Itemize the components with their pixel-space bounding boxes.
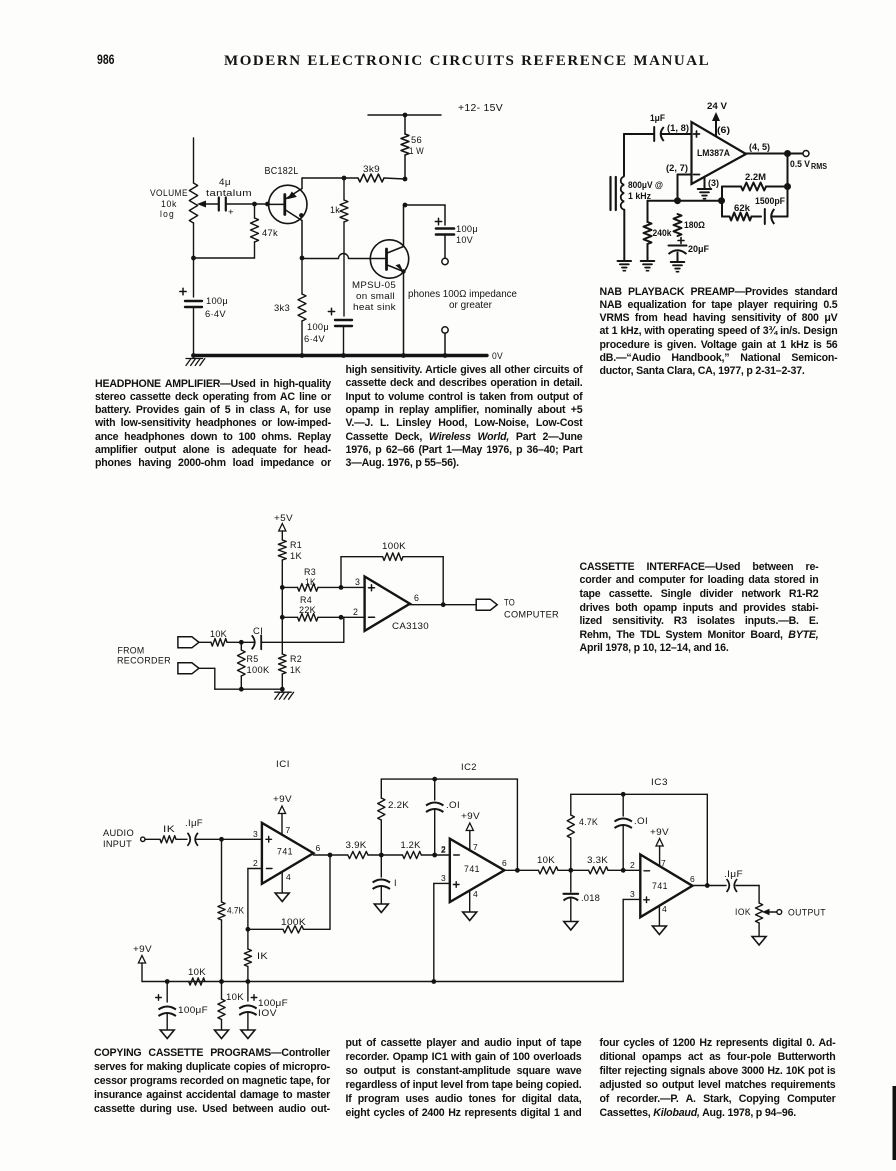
- svg-text:6: 6: [502, 858, 507, 868]
- svg-text:47k: 47k: [262, 228, 278, 239]
- resistor R2 1K: [279, 654, 287, 674]
- pin2 wire IC1: [248, 868, 262, 870]
- pin3 ground: [704, 177, 706, 189]
- scan artifact bar: [893, 1086, 896, 1160]
- wire to pin 3: [341, 586, 365, 588]
- svg-text:3: 3: [441, 873, 446, 883]
- svg-text:.018: .018: [581, 893, 600, 903]
- svg-text:4: 4: [286, 872, 291, 882]
- feedback 100K: [340, 557, 342, 588]
- svg-text:tantalum: tantalum: [206, 188, 252, 199]
- node feedback: [784, 183, 791, 190]
- output IC1 wire: [313, 854, 347, 856]
- svg-text:AUDIO: AUDIO: [103, 828, 134, 838]
- svg-text:IOK: IOK: [735, 907, 751, 917]
- svg-text:R3: R3: [304, 567, 316, 577]
- wire: [176, 838, 187, 840]
- node 4.7K top: [219, 837, 224, 842]
- capacitor .018: [570, 870, 572, 892]
- svg-text:100K: 100K: [281, 917, 307, 927]
- svg-text:3k9: 3k9: [363, 164, 380, 175]
- caption continuation column 2: [346, 1036, 582, 1120]
- svg-text:+9V: +9V: [461, 811, 481, 821]
- potentiometer VOLUME 10k log: [193, 138, 195, 183]
- svg-text:1 kHz: 1 kHz: [628, 191, 651, 201]
- IC2 output node: [504, 869, 538, 871]
- caption: cassette interface: [580, 561, 819, 656]
- svg-text:LM387A: LM387A: [697, 148, 730, 158]
- capacitor 100u 6.4V input: [180, 291, 186, 293]
- ground 20uF: [671, 261, 685, 263]
- wire: [404, 155, 406, 179]
- svg-text:7: 7: [473, 842, 478, 852]
- svg-text:(2, 7): (2, 7): [666, 163, 688, 173]
- wire to IC3 pin2: [608, 869, 640, 871]
- node line: [648, 200, 722, 202]
- capacitor .1uF output: [727, 879, 730, 892]
- wire arrow2 to ground line: [199, 667, 215, 669]
- wire cap to +input: [661, 133, 692, 135]
- wire: [145, 838, 160, 840]
- node pin2: [339, 615, 344, 620]
- capacitor 100uF rail: [166, 982, 168, 1003]
- caption continuation column: [346, 364, 583, 470]
- svg-text:IOV: IOV: [258, 1008, 277, 1018]
- node output to phones: [403, 203, 408, 208]
- tape head source 800uV: [609, 177, 611, 210]
- wire: [558, 869, 589, 871]
- svg-text:1 W: 1 W: [409, 146, 424, 157]
- svg-text:4.7K: 4.7K: [227, 906, 244, 916]
- pin4 ground IC1: [281, 872, 283, 893]
- pot to ground: [758, 923, 760, 937]
- input arrow 2: [178, 663, 199, 674]
- svg-text:R1: R1: [290, 540, 302, 550]
- node output: [441, 602, 446, 607]
- schematic: headphone amplifier: [150, 103, 518, 366]
- svg-text:+9V: +9V: [133, 944, 153, 954]
- svg-text:180Ω: 180Ω: [684, 220, 705, 230]
- wire head to ground: [623, 210, 625, 261]
- wire to pin 2: [341, 616, 365, 618]
- capacitor .01 second: [622, 794, 624, 816]
- resistor R1 1K: [278, 540, 286, 560]
- node divider: [280, 585, 285, 590]
- svg-text:1K: 1K: [305, 577, 317, 587]
- supply rail wire: [368, 114, 441, 116]
- svg-text:CA3130: CA3130: [392, 620, 429, 631]
- resistor 56 1W: [401, 134, 409, 155]
- capacitor 100u 6.4V bypass: [328, 311, 334, 313]
- capacitor 1: [380, 855, 382, 877]
- svg-text:4.7K: 4.7K: [579, 817, 598, 827]
- svg-text:ICI: ICI: [276, 759, 290, 769]
- svg-text:+9V: +9V: [650, 827, 670, 837]
- resistor 4.7K stage2: [570, 838, 572, 870]
- svg-text:10K: 10K: [210, 629, 228, 639]
- svg-text:100μ: 100μ: [456, 224, 478, 235]
- node base: [265, 202, 270, 207]
- svg-text:RECORDER: RECORDER: [117, 654, 171, 665]
- node 1k top: [342, 176, 347, 181]
- caption: NAB playback preamp: [600, 286, 838, 379]
- svg-text:1.2K: 1.2K: [401, 840, 421, 850]
- svg-text:1K: 1K: [290, 551, 303, 561]
- wire: [368, 854, 403, 856]
- output arrow TO COMPUTER: [476, 599, 497, 610]
- node at 56-ohm resistor top: [403, 113, 408, 118]
- resistor 10K stage2: [538, 867, 558, 874]
- svg-text:R2: R2: [290, 654, 302, 664]
- node 4.7K stage2: [568, 868, 573, 873]
- bias rail: [142, 981, 623, 983]
- svg-text:741: 741: [277, 847, 293, 857]
- -input wire: [678, 174, 692, 176]
- node collector-rail: [403, 177, 408, 182]
- svg-text:800μV @: 800μV @: [628, 180, 663, 190]
- output wire: [410, 604, 476, 606]
- svg-text:100K: 100K: [382, 540, 406, 551]
- svg-text:1μF: 1μF: [650, 113, 665, 123]
- rail junction dots: [300, 353, 305, 358]
- caption: copying cassette programs: [94, 1046, 330, 1116]
- svg-text:I: I: [394, 878, 397, 888]
- svg-text:2.2M: 2.2M: [745, 172, 766, 182]
- svg-text:log: log: [160, 209, 175, 220]
- wire cap to rail: [343, 327, 345, 356]
- capacitor 4u tantalum: [218, 198, 220, 211]
- node pot-foot: [191, 256, 196, 261]
- svg-text:0.5 V: 0.5 V: [790, 159, 811, 170]
- svg-text:BC182L: BC182L: [265, 166, 299, 177]
- svg-text:7: 7: [661, 858, 666, 868]
- output wire: [746, 153, 803, 155]
- svg-text:4: 4: [473, 889, 478, 899]
- wire to pot: [736, 885, 759, 887]
- resistor 10K rail: [189, 978, 205, 985]
- resistor R5 100K: [238, 650, 246, 676]
- capacitor 20uF: [678, 240, 684, 242]
- svg-text:100K: 100K: [247, 665, 271, 675]
- svg-text:100μF: 100μF: [178, 1005, 208, 1015]
- svg-text:6: 6: [316, 843, 321, 853]
- svg-text:2: 2: [630, 860, 635, 870]
- capacitor 100u 10V: [435, 221, 441, 223]
- resistor 3k9: [302, 177, 358, 179]
- resistor 1K bias: [247, 929, 249, 949]
- svg-text:3: 3: [355, 577, 360, 587]
- resistor R3 1K: [282, 586, 297, 588]
- svg-text:heat sink: heat sink: [353, 302, 396, 313]
- resistor 47k: [254, 204, 256, 218]
- svg-text:INPUT: INPUT: [103, 839, 132, 849]
- svg-text:R4: R4: [300, 595, 312, 605]
- svg-text:.OI: .OI: [446, 800, 460, 810]
- svg-text:IC3: IC3: [651, 777, 668, 787]
- svg-text:COMPUTER: COMPUTER: [504, 608, 559, 619]
- pin3 wire IC3 long feedback: [623, 898, 640, 900]
- resistor 10K input: [199, 641, 211, 643]
- op-amp LM387A: [692, 122, 747, 184]
- bottom wire: [215, 688, 282, 690]
- svg-text:(3): (3): [708, 178, 719, 188]
- resistor 4.7K input divider: [221, 839, 223, 902]
- wire to phones cap: [405, 204, 445, 206]
- svg-text:6: 6: [690, 874, 695, 884]
- header page number: [97, 51, 115, 67]
- svg-text:2.2K: 2.2K: [388, 800, 409, 810]
- svg-text:+9V: +9V: [273, 794, 293, 804]
- svg-text:.OI: .OI: [634, 816, 648, 826]
- resistor 2.2K: [380, 820, 382, 855]
- wire output down: [787, 154, 789, 187]
- capacitor .01 first: [434, 779, 436, 800]
- wire cap to rail: [193, 307, 195, 356]
- pin4 ground IC3: [658, 906, 660, 926]
- resistor 1k: [343, 178, 345, 200]
- resistor 100K feedback: [248, 928, 283, 930]
- svg-text:+: +: [228, 207, 234, 218]
- resistor 240k: [647, 201, 649, 222]
- svg-text:IC2: IC2: [461, 762, 477, 772]
- svg-text:100μF: 100μF: [258, 998, 288, 1008]
- transistor MPSU-05: [370, 240, 408, 278]
- svg-text:741: 741: [652, 881, 668, 891]
- svg-text:2: 2: [253, 858, 258, 868]
- schematic: cassette interface: [117, 513, 559, 699]
- wire R1-R2 node: [281, 587, 283, 654]
- rail nodes: [165, 979, 170, 984]
- svg-text:3k3: 3k3: [274, 303, 290, 314]
- svg-text:OUTPUT: OUTPUT: [788, 908, 826, 918]
- pin3 wire IC2 to rail: [434, 882, 450, 884]
- svg-text:.IμF: .IμF: [724, 869, 743, 879]
- resistor 10K vertical: [218, 999, 225, 1020]
- svg-text:56: 56: [411, 135, 422, 146]
- wire 47k bottom to pot: [194, 257, 255, 259]
- resistor R4 22K: [282, 616, 297, 618]
- potentiometer 10K output: [756, 903, 763, 923]
- wire 1k to cap: [343, 222, 345, 316]
- svg-text:TO: TO: [504, 597, 515, 608]
- svg-text:+5V: +5V: [274, 513, 293, 524]
- svg-text:(6): (6): [717, 125, 730, 135]
- svg-text:100μ: 100μ: [307, 322, 329, 333]
- node R5 top: [239, 640, 244, 645]
- svg-text:0V: 0V: [492, 351, 503, 361]
- resistor 180 ohm: [674, 214, 682, 236]
- node pin3: [339, 585, 344, 590]
- svg-text:6·4V: 6·4V: [304, 334, 325, 345]
- svg-text:10V: 10V: [456, 235, 473, 246]
- top feedback line IC3: [571, 793, 708, 795]
- svg-text:10K: 10K: [226, 992, 245, 1002]
- svg-text:741: 741: [464, 864, 480, 874]
- wire to IC2 pin2: [421, 854, 450, 856]
- svg-text:(1, 8): (1, 8): [667, 123, 689, 133]
- node emitter junction: [300, 256, 305, 261]
- top feedback line IC2: [381, 778, 517, 780]
- svg-text:4: 4: [662, 904, 667, 914]
- svg-text:2: 2: [353, 607, 358, 617]
- svg-text:10K: 10K: [537, 855, 556, 865]
- resistor 2.2M: [722, 186, 741, 188]
- pot wiper: [762, 909, 770, 915]
- svg-text:7: 7: [286, 825, 291, 835]
- svg-text:1k: 1k: [330, 205, 340, 216]
- pin4 ground IC2: [469, 891, 471, 913]
- wire 100K to output: [329, 855, 331, 929]
- node 47k top: [252, 202, 257, 207]
- capacitor 100uF 10V: [247, 982, 249, 1002]
- svg-text:3: 3: [630, 889, 635, 899]
- svg-text:on small: on small: [356, 291, 395, 302]
- phone terminal bottom: [442, 327, 448, 333]
- resistor 1K input: [160, 836, 176, 843]
- svg-text:62k: 62k: [734, 203, 751, 213]
- wire cap to base: [226, 203, 269, 205]
- svg-text:MPSU-05: MPSU-05: [352, 280, 396, 291]
- ground 240k: [641, 260, 655, 262]
- wire C1 to pin2 node: [262, 641, 344, 643]
- wire to pin3: [197, 838, 262, 840]
- phone terminal top: [442, 258, 448, 264]
- capacitor 1500pF: [764, 209, 766, 224]
- pot wiper arrow: [202, 203, 218, 205]
- wire terminal to 0V rail: [444, 333, 446, 356]
- svg-text:240k: 240k: [653, 228, 673, 238]
- svg-text:phones 100Ω impedance: phones 100Ω impedance: [408, 289, 518, 300]
- node divider 2: [280, 615, 285, 620]
- schematic: cassette copier filter: [103, 759, 826, 1039]
- caption continuation column 3: [600, 1036, 836, 1120]
- svg-text:IK: IK: [163, 824, 176, 834]
- resistor 62k: [722, 216, 730, 218]
- ground cassette: [275, 692, 280, 699]
- svg-text:2: 2: [441, 844, 446, 854]
- caption: headphone amplifier: [95, 378, 331, 471]
- node 2.2K: [379, 853, 384, 858]
- wire to phone terminal: [444, 235, 446, 258]
- svg-text:CI: CI: [253, 626, 263, 636]
- ground head: [618, 260, 632, 262]
- svg-text:3.9K: 3.9K: [346, 840, 367, 850]
- node feedback IC1: [246, 927, 251, 932]
- svg-text:22K: 22K: [299, 605, 317, 615]
- wire emitter to MPSU base with hop: [302, 258, 339, 260]
- resistor 3.3K: [589, 867, 608, 874]
- resistor 3.9K: [348, 851, 368, 858]
- capacitor C1: [241, 641, 254, 643]
- svg-text:20μF: 20μF: [688, 244, 709, 254]
- wire: [404, 115, 406, 134]
- svg-text:4μ: 4μ: [219, 177, 231, 188]
- wire R1 to node: [281, 560, 283, 587]
- ground chassis: [186, 359, 191, 366]
- svg-text:R5: R5: [247, 654, 259, 664]
- wire 1500pF to node: [772, 216, 788, 218]
- svg-text:100μ: 100μ: [206, 296, 228, 307]
- resistor 1.2K: [403, 851, 422, 858]
- svg-text:or greater: or greater: [449, 300, 493, 311]
- svg-text:3.3K: 3.3K: [587, 855, 608, 865]
- svg-text:RMS: RMS: [811, 162, 827, 171]
- output terminal: [803, 151, 809, 157]
- svg-text:6·4V: 6·4V: [205, 309, 226, 320]
- capacitor .1uF input: [187, 833, 190, 846]
- IC3 output: [692, 885, 726, 887]
- wire cap to ground: [677, 253, 679, 263]
- input arrow 1: [178, 637, 199, 648]
- 0V rail: [194, 354, 488, 357]
- resistor 3k3: [301, 258, 303, 294]
- svg-text:IK: IK: [257, 951, 269, 961]
- header title: [224, 53, 724, 70]
- svg-text:10K: 10K: [188, 967, 207, 977]
- svg-text:+12- 15V: +12- 15V: [458, 103, 503, 114]
- wire input cap left: [624, 133, 654, 135]
- svg-text:(4, 5): (4, 5): [749, 142, 770, 152]
- svg-text:6: 6: [414, 593, 419, 603]
- svg-text:1500pF: 1500pF: [755, 196, 785, 206]
- op-amp CA3130: [365, 577, 410, 631]
- svg-text:VOLUME: VOLUME: [150, 188, 188, 199]
- svg-text:3: 3: [253, 829, 258, 839]
- svg-text:24 V: 24 V: [707, 101, 728, 112]
- wire feedback left: [721, 187, 723, 217]
- svg-text:.IμF: .IμF: [185, 818, 203, 828]
- svg-text:1K: 1K: [290, 665, 302, 675]
- input terminal: [141, 837, 145, 841]
- schematic: NAB playback preamp: [611, 101, 828, 272]
